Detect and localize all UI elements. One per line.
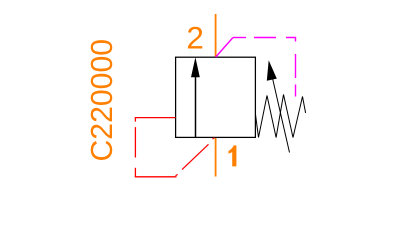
adjustment arrow shaft: [273, 80, 290, 153]
drain line diagonal tick (red): [176, 174, 178, 176]
pilot line vertical dash 1 (magenta): [295, 54, 297, 78]
pilot line horizontal dash 1 (magenta): [233, 37, 246, 39]
drain line diagonal end tick (red): [213, 138, 215, 140]
pilot line corner dash (magenta): [286, 38, 296, 42]
port line 2 (orange): [215, 14, 217, 57]
spring: [256, 95, 306, 138]
drain line vertical dash 2 (red): [134, 127, 136, 157]
port label 1: [229, 145, 237, 166]
valve body box: [176, 57, 256, 137]
pilot line vertical dash 2 (magenta): [295, 85, 297, 97]
drain line bottom horizontal (red): [135, 176, 177, 178]
drain line vertical dash 3 (red): [134, 168, 136, 177]
svg-text:2: 2: [186, 20, 204, 56]
drain line top horizontal (red): [135, 117, 176, 119]
adjustment arrowhead: [267, 60, 277, 81]
drain line diagonal (red): [182, 144, 209, 169]
port line 1 (orange): [215, 137, 217, 176]
drain line vertical dash 1 (red): [134, 117, 136, 121]
pilot line diagonal (magenta): [216, 38, 233, 58]
pilot line horizontal dash 2 (magenta): [254, 37, 276, 39]
svg-text:C220000: C220000: [86, 39, 119, 162]
flow arrowhead: [191, 57, 200, 77]
flow arrow shaft: [195, 77, 197, 138]
